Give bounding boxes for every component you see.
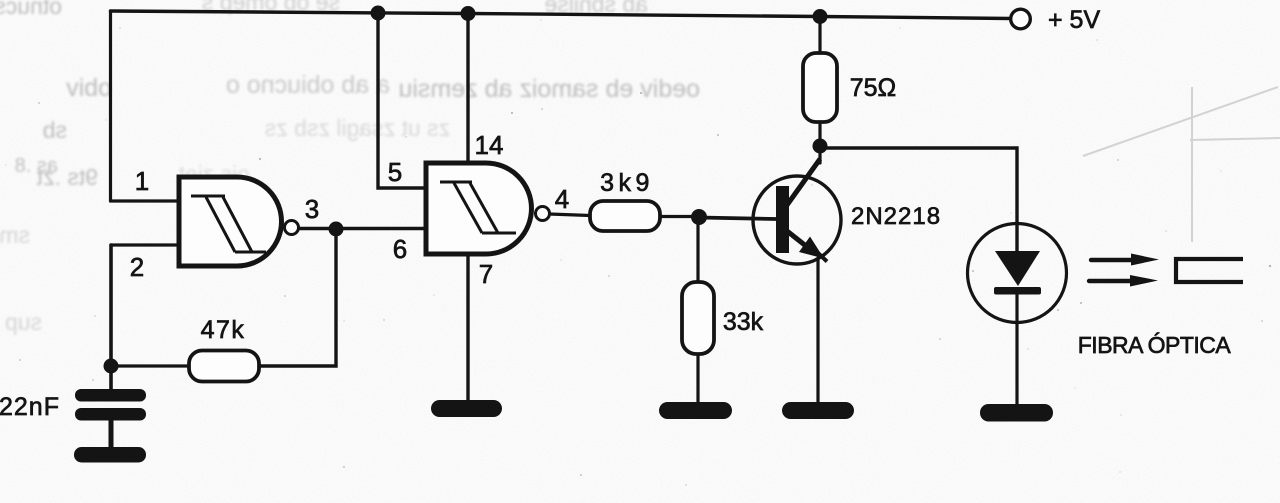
wire 3k9 to base node <box>660 215 699 218</box>
svg-text:33k: 33k <box>723 308 764 336</box>
node dot rail/pin14 <box>461 6 476 21</box>
resistor 75ohm <box>803 53 837 122</box>
node dot collector <box>813 139 828 154</box>
wire gate1 output to gate2 pin 6 <box>298 227 426 230</box>
capacitor lead to ground <box>109 420 114 448</box>
ground under capacitor <box>74 447 146 463</box>
resistor 3k9 <box>590 201 660 231</box>
wire base node to transistor <box>699 218 776 220</box>
light arrow 1 shaft <box>1091 258 1133 262</box>
+5V terminal circle <box>1011 9 1031 29</box>
svg-text:oediv eb samoiz ab zemsiu: oediv eb samoiz ab zemsiu <box>398 75 700 103</box>
light arrow 2 shaft <box>1089 279 1131 283</box>
svg-text:sup: sup <box>5 309 42 335</box>
node dot transistor base <box>691 209 707 225</box>
svg-text:zs ut zsagil zsb zs: zs ut zsagil zsb zs <box>265 115 450 141</box>
crease marks (scan artifact) <box>1083 87 1280 242</box>
svg-text:5: 5 <box>388 157 402 187</box>
wire rail to 75ohm <box>818 17 821 54</box>
crease horizontal <box>1190 138 1280 140</box>
node dot capacitor/47k <box>104 359 119 374</box>
NAND gate U1a body <box>179 177 282 266</box>
LED D1 circle <box>968 224 1067 323</box>
svg-text:3k9: 3k9 <box>600 169 654 197</box>
svg-text:7: 7 <box>479 259 493 289</box>
resistor 33k <box>682 282 714 354</box>
wire top +5V rail <box>111 11 1011 19</box>
wire gate2 output to 3k9 <box>549 214 590 216</box>
ground under LED <box>980 404 1053 422</box>
wire pin 5 from rail <box>378 13 426 188</box>
U1a schmitt symbol <box>191 196 266 252</box>
svg-text:+ 5V: + 5V <box>1048 6 1100 34</box>
capacitor 22nF plate 2 <box>75 408 146 421</box>
svg-text:otnucs: otnucs <box>0 0 62 19</box>
ground under transistor <box>782 402 854 419</box>
wire left vertical to pin 1 <box>109 11 112 201</box>
U1b output bubble <box>536 207 550 221</box>
ground under gate pin 7 <box>431 400 502 417</box>
wire 47k left segment <box>111 364 190 367</box>
crease diagonal <box>1083 87 1278 156</box>
LED triangle <box>995 251 1040 286</box>
wire LED cathode to ground <box>1015 294 1018 406</box>
Q1 base bar <box>776 186 789 253</box>
crease vertical <box>1191 87 1193 242</box>
node dot rail/75ohm <box>813 9 828 24</box>
Q1 emitter stroke <box>787 231 806 246</box>
svg-text:22nF: 22nF <box>0 393 60 421</box>
svg-text:2N2218: 2N2218 <box>851 203 941 230</box>
svg-text:6: 6 <box>393 234 407 264</box>
optical fiber outline <box>1176 259 1243 282</box>
wire 47k right segment and up to node 3 <box>258 229 336 366</box>
light arrow 2 head <box>1130 275 1158 287</box>
svg-text:14: 14 <box>475 130 504 160</box>
wire pin 2 horizontal <box>111 243 179 246</box>
wire pin 2 vertical down to capacitor <box>109 245 113 390</box>
node dot rail/pin5 <box>371 6 386 21</box>
light arrow 1 head <box>1131 254 1159 266</box>
Q1 emitter arrowhead <box>799 237 824 259</box>
bleed-through mirrored text (scan artifact) <box>0 0 700 335</box>
svg-text:sb: sb <box>43 117 67 143</box>
transistor Q1 circle <box>753 176 841 264</box>
svg-text:sm: sm <box>0 222 30 248</box>
Q1 emitter tail <box>818 253 827 262</box>
wire collector node to LED anode <box>820 148 1017 252</box>
wire 75ohm to collector node <box>818 122 821 146</box>
svg-text:4: 4 <box>555 184 569 214</box>
U1a output bubble <box>285 221 299 235</box>
svg-text:3: 3 <box>305 194 319 224</box>
wire emitter to ground <box>816 258 819 404</box>
NAND gate U1b body <box>426 163 531 254</box>
wire pin 7 to ground <box>466 253 469 402</box>
wire pin 14 from rail <box>466 13 469 164</box>
svg-text:2: 2 <box>130 252 144 282</box>
svg-text:FIBRA ÓPTICA: FIBRA ÓPTICA <box>1078 332 1232 358</box>
svg-text:as .8: as .8 <box>15 155 58 177</box>
svg-text:47k: 47k <box>201 316 246 344</box>
wire collector node down <box>818 146 821 163</box>
svg-text:obiv: obiv <box>66 74 112 102</box>
ground under 33k <box>659 402 732 419</box>
svg-text:a ab obiucno o: a ab obiucno o <box>226 71 390 99</box>
Q1 collector stroke <box>787 159 820 205</box>
node dot gate1 output <box>329 222 344 237</box>
wire base node down to 33k <box>696 217 699 282</box>
svg-text:1: 1 <box>135 166 149 196</box>
wire pin 1 horizontal <box>111 199 180 202</box>
capacitor 22nF plate 1 <box>75 389 146 402</box>
LED cathode bar <box>994 287 1041 295</box>
wire 33k to ground <box>696 354 699 404</box>
svg-text:75Ω: 75Ω <box>850 74 897 102</box>
resistor 47k <box>189 351 259 382</box>
U1b schmitt symbol <box>440 182 516 233</box>
